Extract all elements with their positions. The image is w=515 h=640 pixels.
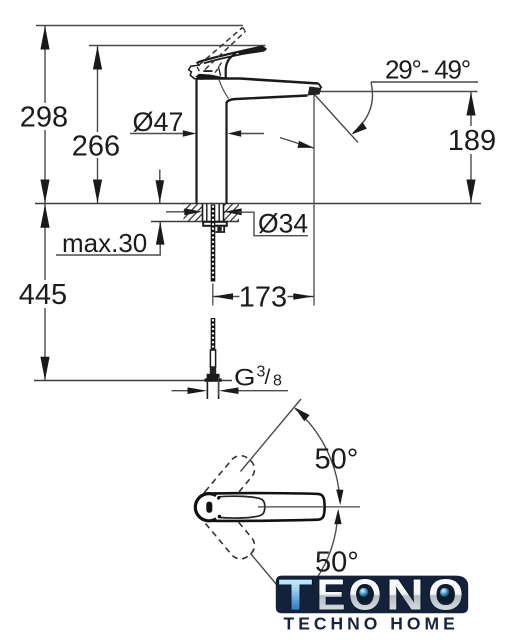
svg-text:Ø34: Ø34 bbox=[258, 209, 308, 239]
deck cross-section hatching left bbox=[166, 203, 262, 223]
handle rotation ray upper bbox=[241, 399, 302, 472]
dimension reference line top of raised lever (298) bbox=[36, 25, 243, 27]
svg-text:/: / bbox=[265, 366, 271, 389]
logo O lens right bbox=[437, 585, 455, 603]
faucet body right edge bbox=[225, 102, 227, 204]
handle centerline bbox=[250, 506, 360, 508]
logo background plate bbox=[276, 576, 468, 614]
lever neck left line bbox=[218, 67, 220, 76]
rod dark lower section bbox=[210, 367, 216, 374]
handle rotated dashed upper bbox=[198, 451, 260, 517]
spout body junction curve bbox=[219, 80, 229, 99]
deck cross-section hatching right bbox=[166, 203, 262, 223]
rotation arc lower bbox=[315, 513, 338, 581]
svg-text:189: 189 bbox=[448, 125, 496, 157]
svg-text:Ø47: Ø47 bbox=[133, 107, 184, 137]
rod centre extension tick bbox=[212, 284, 214, 306]
dimension 266 arrows bbox=[93, 46, 102, 70]
lever pivot front hook bbox=[189, 61, 204, 79]
washer under deck bbox=[203, 222, 227, 226]
svg-text:173: 173 bbox=[239, 282, 287, 314]
svg-text:G: G bbox=[234, 365, 256, 392]
shank tube walls bbox=[206, 204, 208, 222]
svg-text:445: 445 bbox=[19, 279, 67, 311]
dimension 189 vertical line bbox=[470, 92, 472, 127]
supply pipe below line bbox=[206, 382, 208, 399]
dimension 189 arrows bbox=[466, 92, 475, 116]
dimension 173 line bbox=[213, 296, 240, 298]
dimension 298 vertical line bbox=[44, 26, 46, 104]
mounting hole left edge bbox=[202, 204, 204, 222]
lever base cap bbox=[194, 71, 213, 79]
svg-text:298: 298 bbox=[20, 102, 68, 134]
logo O lens left bbox=[356, 585, 374, 603]
mounting nut bbox=[216, 226, 225, 232]
svg-text:N: N bbox=[386, 571, 424, 620]
svg-text:T: T bbox=[279, 571, 313, 620]
dimension 266 vertical line bbox=[97, 46, 99, 133]
29-49 label underline bbox=[371, 81, 478, 83]
smooth rod section bbox=[210, 350, 215, 367]
lever handle blade top edge bbox=[198, 47, 266, 63]
G38 extension tick bbox=[218, 377, 220, 396]
svg-text:50°: 50° bbox=[315, 444, 359, 476]
G38 arrows bbox=[172, 390, 189, 392]
fitting flange bbox=[205, 378, 222, 381]
spout top edge bbox=[197, 79, 319, 84]
handle top view outline bbox=[211, 493, 325, 521]
dimension 445 arrows bbox=[40, 204, 49, 228]
spout underside bbox=[227, 96, 308, 104]
svg-text:8: 8 bbox=[273, 373, 282, 390]
max.30 upper arrow bbox=[159, 170, 161, 204]
lever blade top-view inner outline bbox=[218, 496, 265, 518]
spout tip face bbox=[319, 84, 322, 89]
raised lever neck dashed bbox=[214, 63, 222, 75]
max.30 lower arrow and leader bbox=[159, 222, 161, 255]
mousseur (aerator) bbox=[308, 87, 322, 96]
handle rotation ray lower bbox=[251, 554, 278, 586]
O34 leader polyline bbox=[239, 212, 309, 236]
deck / countertop line bbox=[35, 203, 481, 205]
centerline inside handle bbox=[258, 506, 324, 508]
spout height reference line bbox=[315, 91, 478, 93]
G3/8 fitting nut bbox=[207, 374, 220, 379]
lever base dark wedge bbox=[196, 74, 225, 80]
lever neck curve bbox=[226, 54, 236, 78]
logo word TEONO bbox=[279, 571, 464, 620]
dimension 173 arrows bbox=[213, 293, 233, 300]
faucet body left edge bbox=[195, 79, 197, 204]
angle arc large with arrow bbox=[353, 82, 373, 133]
dimension 445 vertical line bbox=[44, 204, 46, 280]
dimension 298 arrows bbox=[40, 26, 49, 50]
O47 underline and arrows bbox=[130, 133, 184, 135]
deck bottom line bbox=[151, 221, 239, 223]
knob screw dots bbox=[217, 496, 220, 499]
knob slot bbox=[206, 502, 212, 513]
handle rotated dashed lower bbox=[198, 497, 260, 563]
svg-text:TECHNO HOME: TECHNO HOME bbox=[284, 613, 459, 633]
lever blade dark tip wedge bbox=[238, 46, 266, 55]
svg-text:29°- 49°: 29°- 49° bbox=[385, 55, 470, 85]
lever handle blade underside bbox=[199, 50, 265, 65]
dimension reference line top of lever (266) bbox=[89, 45, 266, 47]
threaded rod upper segment bbox=[211, 205, 216, 282]
svg-text:266: 266 bbox=[72, 131, 120, 163]
O34 dimension tail left bbox=[166, 211, 185, 213]
svg-text:E: E bbox=[317, 571, 346, 620]
mounting hole right edge bbox=[223, 204, 225, 222]
O34 arrows bbox=[184, 208, 202, 215]
angle arc small with arrow bbox=[280, 138, 314, 149]
lever handle raised dashed bbox=[199, 28, 243, 66]
supply end line (445 bottom) bbox=[34, 380, 232, 382]
spout tip extension vertical line bbox=[313, 95, 315, 306]
rotation arc upper bbox=[295, 408, 340, 501]
handle pivot knob bbox=[195, 494, 216, 521]
svg-text:max.30: max.30 bbox=[62, 228, 147, 258]
threaded rod lower segment bbox=[211, 318, 216, 350]
water jet direction line bbox=[315, 95, 359, 143]
